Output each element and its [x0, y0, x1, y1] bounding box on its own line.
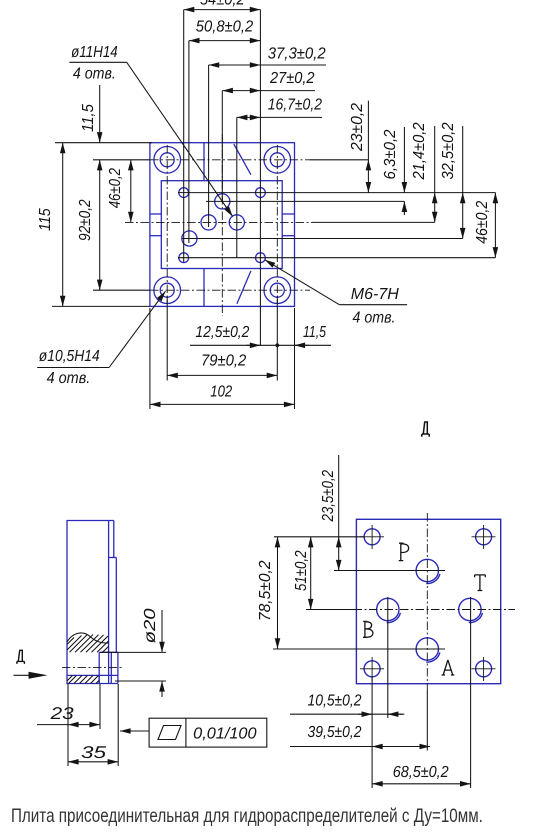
- svg-text:23,5±0,2: 23,5±0,2: [320, 470, 337, 522]
- svg-text:4 отв.: 4 отв.: [47, 370, 91, 387]
- svg-text:10,5±0,2: 10,5±0,2: [308, 693, 362, 710]
- svg-text:4 отв.: 4 отв.: [353, 310, 396, 327]
- svg-text:6,3±0,2: 6,3±0,2: [382, 129, 399, 179]
- svg-text:50,8±0,2: 50,8±0,2: [196, 19, 253, 36]
- svg-text:79±0,2: 79±0,2: [201, 353, 246, 370]
- svg-text:35: 35: [81, 743, 107, 762]
- svg-text:12,5±0,2: 12,5±0,2: [195, 324, 249, 341]
- svg-text:46±0,2: 46±0,2: [474, 201, 491, 244]
- svg-text:39,5±0,2: 39,5±0,2: [308, 724, 362, 741]
- svg-text:37,3±0,2: 37,3±0,2: [268, 46, 326, 63]
- svg-text:0,01/100: 0,01/100: [193, 726, 256, 743]
- svg-text:78,5±0,2: 78,5±0,2: [257, 560, 274, 621]
- svg-text:4 отв.: 4 отв.: [73, 66, 116, 83]
- svg-text:16,7±0,2: 16,7±0,2: [268, 97, 322, 114]
- svg-text:23: 23: [49, 704, 74, 723]
- svg-text:ø10,5Н14: ø10,5Н14: [39, 348, 100, 365]
- svg-text:51±0,2: 51±0,2: [293, 550, 310, 591]
- svg-text:27±0,2: 27±0,2: [269, 70, 314, 87]
- svg-text:21,4±0,2: 21,4±0,2: [411, 122, 428, 180]
- svg-text:115: 115: [37, 208, 54, 231]
- svg-text:68,5±0,2: 68,5±0,2: [393, 764, 449, 781]
- svg-text:11,5: 11,5: [80, 104, 97, 132]
- svg-text:92±0,2: 92±0,2: [77, 199, 94, 241]
- svg-text:ø11Н14: ø11Н14: [71, 44, 118, 61]
- svg-text:11,5: 11,5: [303, 324, 326, 341]
- svg-text:23±0,2: 23±0,2: [349, 103, 366, 152]
- svg-text:М6-7Н: М6-7Н: [351, 286, 399, 303]
- svg-text:46±0,2: 46±0,2: [107, 168, 124, 208]
- svg-text:54±0,2: 54±0,2: [200, 0, 245, 9]
- svg-text:ø20: ø20: [142, 608, 159, 643]
- svg-text:102: 102: [210, 384, 232, 401]
- svg-text:32,5±0,2: 32,5±0,2: [440, 122, 457, 179]
